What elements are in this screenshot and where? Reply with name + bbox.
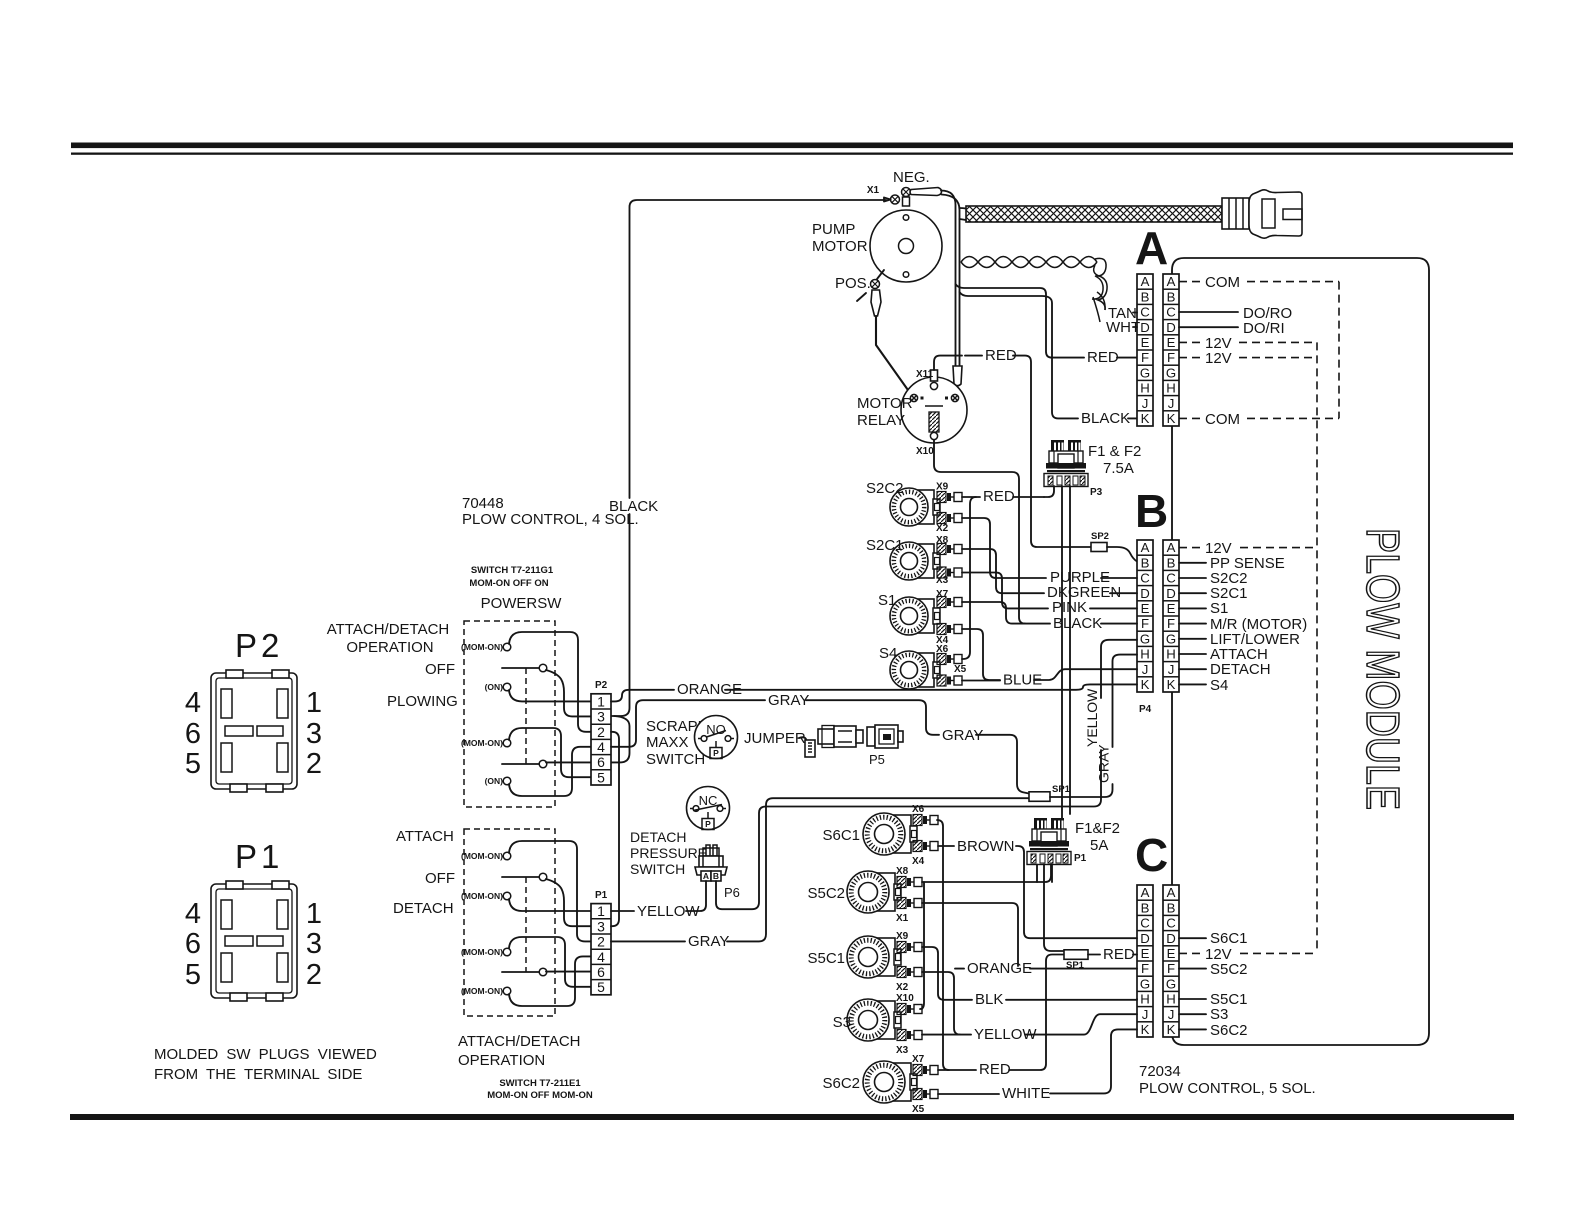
wire 12V dashed at B pin A	[1179, 547, 1201, 549]
svg-text:MOM-ON OFF ON: MOM-ON OFF ON	[469, 578, 548, 589]
svg-text:B: B	[1141, 289, 1150, 304]
terminal POS	[871, 280, 880, 289]
svg-text:K: K	[1141, 1022, 1150, 1037]
wire MOM-ON1 to P2 pin 2	[509, 632, 591, 732]
svg-text:BROWN: BROWN	[957, 838, 1015, 855]
svg-text:H: H	[1166, 992, 1176, 1007]
svg-text:FROM THE TERMINAL SIDE: FROM THE TERMINAL SIDE	[154, 1066, 362, 1083]
svg-text:P1: P1	[1074, 853, 1087, 864]
wire S6C1 at C pin D	[1179, 937, 1206, 939]
svg-text:BLACK: BLACK	[1081, 410, 1130, 427]
svg-text:SP1: SP1	[1066, 960, 1085, 971]
svg-text:B: B	[1167, 900, 1176, 915]
svg-text:D: D	[1140, 931, 1150, 946]
svg-text:5: 5	[185, 748, 201, 780]
svg-text:COM: COM	[1205, 274, 1240, 291]
svg-text:P5: P5	[869, 752, 885, 767]
svg-text:PINK: PINK	[1052, 599, 1087, 616]
pressure switch NO	[695, 716, 738, 759]
svg-text:DETACH: DETACH	[393, 900, 454, 917]
wire DO/RO at pin C	[1179, 311, 1238, 313]
spade X3	[937, 567, 962, 578]
svg-text:3: 3	[306, 928, 322, 960]
solenoid S2C1	[890, 542, 940, 580]
svg-text:RED: RED	[1103, 946, 1135, 963]
wire MOM-ONb to P1 pin 1	[509, 899, 591, 911]
wire common2 to P2 pin 6	[546, 761, 591, 763]
svg-text:ATTACH/DETACH: ATTACH/DETACH	[327, 621, 450, 638]
pump motor	[870, 197, 942, 282]
svg-text:X10: X10	[916, 446, 934, 457]
wire COM dashed at A pin A	[1179, 281, 1200, 283]
svg-text:F: F	[1141, 961, 1149, 976]
svg-text:X3: X3	[896, 1045, 909, 1056]
fuse holder P3	[1044, 440, 1088, 487]
svg-text:1: 1	[597, 693, 605, 709]
wire 12V dashed at pin E	[1179, 341, 1201, 343]
mechanical link dashed lower	[525, 877, 527, 972]
svg-text:E: E	[1167, 601, 1176, 616]
svg-text:OFF: OFF	[425, 870, 455, 887]
svg-text:F1&F2: F1&F2	[1075, 820, 1120, 837]
svg-text:(ON): (ON)	[485, 776, 504, 786]
wire GRAY P2 pin4 to P5	[611, 700, 765, 747]
svg-text:B: B	[713, 871, 719, 881]
svg-text:BLACK: BLACK	[1053, 615, 1102, 632]
wire X2 (S5C1) down to YELLOW	[922, 972, 960, 1035]
svg-text:PLOW MODULE: PLOW MODULE	[1357, 528, 1409, 810]
svg-text:S4: S4	[879, 645, 897, 662]
svg-text:RED: RED	[985, 347, 1017, 364]
spade X8	[937, 544, 962, 555]
svg-text:G: G	[1140, 365, 1150, 380]
svg-text:JUMPER: JUMPER	[744, 730, 806, 747]
plow module enclosure box	[1172, 258, 1429, 1045]
svg-text:F: F	[1167, 350, 1175, 365]
svg-text:S1: S1	[878, 592, 896, 609]
terminal NEG	[902, 188, 911, 197]
border rule top thick	[71, 143, 1513, 149]
wire S5C1 at C pin H	[1179, 998, 1206, 1000]
svg-text:7.5A: 7.5A	[1103, 460, 1134, 477]
spade X3 (S3)	[897, 1030, 922, 1041]
svg-text:X3: X3	[936, 575, 949, 586]
wire MOM-ON2 to P2 pin 5	[509, 728, 591, 777]
border rule top thin	[71, 153, 1513, 155]
svg-text:P4: P4	[1139, 704, 1152, 715]
fuse P1 pigtails	[1036, 865, 1038, 883]
svg-text:J: J	[1142, 662, 1149, 677]
solenoid S3	[847, 999, 901, 1041]
svg-text:DO/RI: DO/RI	[1243, 320, 1285, 337]
svg-text:3: 3	[306, 718, 322, 750]
spade X6	[937, 654, 962, 665]
jumper P2 pin3 to pin6	[611, 716, 630, 762]
svg-text:PLOW CONTROL, 5 SOL.: PLOW CONTROL, 5 SOL.	[1139, 1080, 1316, 1097]
spade X5	[937, 675, 962, 686]
svg-text:A: A	[1141, 885, 1150, 900]
svg-text:ORANGE: ORANGE	[967, 960, 1032, 977]
braided cable	[966, 206, 1222, 222]
wire NEG pair down to motor relay	[941, 191, 956, 369]
svg-text:S2C1: S2C1	[866, 537, 904, 554]
wire PP SENSE at B pin B	[1179, 562, 1206, 564]
svg-text:K: K	[1167, 677, 1176, 692]
terminal X1	[884, 195, 900, 204]
svg-text:OPERATION: OPERATION	[458, 1052, 545, 1069]
svg-text:RELAY: RELAY	[857, 412, 905, 429]
svg-text:X9: X9	[896, 931, 909, 942]
svg-text:K: K	[1141, 411, 1150, 426]
svg-text:70448: 70448	[462, 495, 504, 512]
wire S2C2 at B pin C	[1179, 577, 1206, 579]
wire common-a to P1 pin 3	[546, 879, 591, 926]
svg-text:X6: X6	[936, 644, 949, 655]
motor relay	[901, 370, 967, 443]
wire P2 pin2 to P1 pin3	[611, 732, 619, 926]
connector block C right column	[1163, 885, 1179, 1037]
wire relay X11 to RED	[934, 356, 962, 370]
svg-text:2: 2	[306, 959, 322, 991]
svg-text:OPERATION: OPERATION	[346, 639, 433, 656]
switch contact MOM-ON c	[503, 948, 511, 956]
connector block B left column	[1137, 540, 1153, 692]
wire S3 at C pin J	[1179, 1013, 1206, 1015]
svg-text:X5: X5	[912, 1104, 925, 1115]
wire MOM-ONa to P1 pin 2	[509, 841, 591, 941]
svg-text:X8: X8	[936, 535, 949, 546]
switch contact MOM-ON a	[503, 852, 511, 860]
wire X4 to BLUE	[962, 629, 1000, 680]
spade X7 (S6C2)	[913, 1065, 938, 1076]
svg-text:PLOWING: PLOWING	[387, 693, 458, 710]
wire DETACH at B pin J	[1179, 668, 1206, 670]
wire BROWN S6C1 X4 to C pin D	[938, 845, 954, 847]
svg-text:A: A	[1141, 540, 1150, 555]
svg-text:X9: X9	[936, 482, 949, 493]
fuse holder P1	[1027, 818, 1071, 865]
svg-text:MOTOR: MOTOR	[812, 238, 868, 255]
svg-text:X11: X11	[916, 369, 934, 380]
svg-text:B: B	[1167, 555, 1176, 570]
wire POS stub to motor	[877, 270, 884, 279]
svg-text:1: 1	[306, 898, 322, 930]
svg-text:3: 3	[597, 709, 605, 725]
svg-text:SWITCH: SWITCH	[646, 751, 705, 768]
wire X8 line down to X10 (S3)	[920, 882, 924, 1009]
svg-text:DETACH: DETACH	[1210, 661, 1271, 678]
svg-text:E: E	[1167, 335, 1176, 350]
svg-text:GRAY: GRAY	[768, 692, 809, 709]
jumper tag	[805, 740, 815, 757]
svg-text:J: J	[1168, 662, 1175, 677]
switch contact MOM-ON b	[503, 892, 511, 900]
svg-text:F: F	[1167, 616, 1175, 631]
wire X7 to BLACK	[962, 602, 1050, 624]
wire TAN to pin C	[1133, 312, 1137, 314]
wire X2 to PURPLE	[962, 518, 1046, 578]
jumper wire hook	[799, 737, 806, 739]
svg-text:C: C	[1166, 571, 1176, 586]
svg-text:D: D	[1140, 320, 1150, 335]
svg-text:5: 5	[597, 979, 605, 995]
svg-text:WHITE: WHITE	[1002, 1085, 1050, 1102]
svg-text:SWITCH: SWITCH	[630, 861, 685, 877]
svg-text:S3: S3	[1210, 1006, 1228, 1023]
svg-text:J: J	[1168, 396, 1175, 411]
switch common b blade	[502, 971, 539, 973]
svg-text:C: C	[1166, 916, 1176, 931]
wire X8 to DKGREEN	[962, 549, 1044, 593]
switch common 1 blade	[502, 667, 539, 669]
svg-text:NEG.: NEG.	[893, 169, 930, 186]
svg-text:P1: P1	[595, 890, 608, 901]
wire COM dashed at A pin K	[1179, 417, 1200, 419]
wire from X1 to P2 pin 3 (BLACK)	[630, 200, 887, 498]
svg-text:SP2: SP2	[1091, 531, 1109, 542]
pressure switch NC	[687, 787, 730, 830]
fuse P3 pigtail vertical feeders	[1061, 486, 1063, 818]
switch contact ON 2	[503, 777, 511, 785]
svg-text:A: A	[1135, 222, 1168, 274]
wire 12V dashed at C pin E	[1179, 952, 1201, 954]
svg-text:(ON): (ON)	[485, 682, 504, 692]
svg-text:K: K	[1141, 677, 1150, 692]
svg-text:P2: P2	[595, 680, 608, 691]
wire 12V dashed at pin F	[1179, 357, 1201, 359]
spade X10 (S3)	[897, 1004, 922, 1015]
svg-text:6: 6	[185, 928, 201, 960]
svg-text:D: D	[1140, 586, 1150, 601]
svg-text:H: H	[1140, 992, 1150, 1007]
wire S6C2 at C pin K	[1179, 1028, 1206, 1030]
wire pair branch to RED / BLACK feed	[956, 284, 1053, 358]
wire YELLOW P1 pin1 to P6 A	[611, 910, 634, 912]
svg-text:E: E	[1141, 946, 1150, 961]
wire X5 BLUE to B pin J	[962, 680, 1000, 682]
svg-text:B: B	[1167, 289, 1176, 304]
svg-text:J: J	[1142, 1007, 1149, 1022]
svg-text:C: C	[1140, 916, 1150, 931]
svg-text:H: H	[1166, 647, 1176, 662]
svg-text:PUMP: PUMP	[812, 221, 855, 238]
wire POS to relay left post	[876, 316, 912, 395]
wire RED to A block pin F	[1052, 357, 1084, 359]
svg-text:4: 4	[185, 687, 201, 719]
svg-text:6: 6	[597, 964, 605, 980]
switch body lower dashed box	[464, 829, 555, 1016]
wire LIFT/LOWER at B pin G	[1179, 638, 1206, 640]
wire common1 to P2 pin 3	[546, 670, 591, 716]
svg-text:S5C2: S5C2	[1210, 961, 1248, 978]
svg-text:RED: RED	[979, 1061, 1011, 1078]
terminal strip P1	[591, 903, 611, 995]
connector P6	[695, 845, 727, 881]
wire X8 (S5C2) to fuse	[922, 865, 1051, 883]
switch body POWERSW dashed box	[464, 621, 555, 807]
wire S1 at B pin E	[1179, 607, 1206, 609]
switch common a blade	[502, 876, 539, 878]
svg-text:K: K	[1167, 411, 1176, 426]
wire stub braid to NEG pair	[960, 207, 967, 210]
wire DO/RI at pin D	[1179, 326, 1238, 328]
svg-text:B: B	[1135, 485, 1168, 537]
svg-text:F: F	[1141, 350, 1149, 365]
svg-text:(MOM-ON): (MOM-ON)	[461, 947, 503, 957]
wire ON1 to P2 pin 1	[509, 690, 591, 701]
svg-text:X2: X2	[896, 982, 909, 993]
svg-text:A: A	[703, 871, 709, 881]
svg-text:X5: X5	[954, 664, 967, 675]
mechanical link dashed	[525, 668, 527, 764]
spade X9 (S5C1)	[897, 942, 922, 953]
lug at relay post X11 right	[953, 366, 962, 386]
svg-text:1: 1	[597, 903, 605, 919]
switch common 2 blade	[502, 763, 539, 765]
svg-text:J: J	[1142, 396, 1149, 411]
svg-text:C: C	[1166, 305, 1176, 320]
wire MOM-ONc to P1 pin 5	[509, 937, 591, 987]
cable connector plug	[1249, 190, 1302, 238]
svg-text:3: 3	[597, 918, 605, 934]
twisted pair wires	[961, 257, 1107, 323]
svg-text:S3: S3	[833, 1014, 851, 1031]
svg-text:G: G	[1140, 976, 1150, 991]
spade X1 (S5C2)	[897, 898, 922, 909]
svg-text:G: G	[1166, 365, 1176, 380]
wire X3 YELLOW to C pin J	[922, 1034, 971, 1036]
svg-text:YELLOW: YELLOW	[1084, 688, 1100, 747]
splice SP2	[1091, 543, 1107, 552]
svg-text:H: H	[1140, 647, 1150, 662]
svg-text:F: F	[1141, 616, 1149, 631]
spade X2 (S5C1)	[897, 967, 922, 978]
solenoid S2C2	[890, 488, 940, 526]
svg-text:S6C2: S6C2	[1210, 1022, 1248, 1039]
svg-text:ATTACH: ATTACH	[396, 828, 454, 845]
solenoid S1	[890, 597, 940, 635]
terminal strip P2	[591, 693, 611, 785]
dashed vertical COM	[1338, 282, 1340, 419]
svg-text:POS.: POS.	[835, 275, 871, 292]
svg-text:X7: X7	[912, 1054, 925, 1065]
svg-text:5: 5	[597, 769, 605, 785]
svg-text:POWERSW: POWERSW	[481, 595, 563, 612]
svg-text:X10: X10	[896, 993, 914, 1004]
wire RED solenoid common	[962, 496, 980, 498]
solenoid S6C1	[863, 813, 917, 855]
svg-text:72034: 72034	[1139, 1063, 1181, 1080]
wire relay X10 to BLACK (M/R)	[934, 440, 1025, 624]
svg-text:X2: X2	[936, 523, 949, 534]
svg-text:D: D	[1166, 320, 1176, 335]
svg-text:S6C1: S6C1	[822, 827, 860, 844]
solenoid S5C2	[847, 871, 901, 913]
svg-text:OFF: OFF	[425, 661, 455, 678]
svg-text:MOM-ON OFF MOM-ON: MOM-ON OFF MOM-ON	[487, 1090, 593, 1101]
spade X2	[937, 513, 962, 524]
connector P5	[867, 725, 903, 748]
svg-text:RED: RED	[983, 488, 1015, 505]
svg-text:SWITCH T7-211E1: SWITCH T7-211E1	[499, 1078, 581, 1089]
splice SP1 (C section)	[1064, 950, 1088, 960]
svg-text:G: G	[1166, 976, 1176, 991]
svg-text:D: D	[1166, 931, 1176, 946]
solenoid S6C2	[863, 1061, 917, 1103]
svg-text:PLOW CONTROL, 4 SOL.: PLOW CONTROL, 4 SOL.	[462, 511, 639, 528]
svg-text:ATTACH/DETACH: ATTACH/DETACH	[458, 1033, 581, 1050]
svg-text:P6: P6	[724, 885, 740, 900]
svg-text:S6C2: S6C2	[822, 1075, 860, 1092]
wire X1 (S5C2) to ORANGE / C pin F	[922, 903, 1018, 966]
wire ON2 to P2 pin 4	[509, 747, 591, 796]
wire SP2 to B block pin B	[1107, 547, 1137, 562]
wire X7 (S6C2) RED to SP1	[938, 1069, 976, 1071]
svg-text:D: D	[1166, 586, 1176, 601]
svg-text:S5C2: S5C2	[807, 885, 845, 902]
cable strain relief	[1222, 198, 1249, 229]
jumper connector halves	[818, 726, 863, 748]
svg-text:(MOM-ON): (MOM-ON)	[461, 986, 503, 996]
svg-text:S5C1: S5C1	[807, 950, 845, 967]
wire X3 to PINK	[962, 573, 1048, 609]
svg-text:X8: X8	[896, 866, 909, 877]
wire SP1 to RED C pin E	[1088, 954, 1100, 956]
connector block B right column	[1163, 540, 1179, 692]
lug NEG	[910, 188, 942, 196]
svg-text:PRESSURE: PRESSURE	[630, 845, 707, 861]
svg-text:C: C	[1140, 571, 1150, 586]
wire ORANGE P2 pin1 to B pin K	[611, 690, 674, 702]
wire RED down to SP2	[1013, 356, 1091, 547]
wire X9 (S5C1) to BLK / C pin H	[922, 947, 972, 1000]
wire S2C1 at B pin D	[1179, 592, 1206, 594]
svg-text:2: 2	[597, 934, 605, 950]
svg-text:S1: S1	[1210, 600, 1228, 617]
svg-text:2: 2	[306, 748, 322, 780]
spade X7	[937, 597, 962, 608]
svg-text:GRAY: GRAY	[1096, 744, 1112, 783]
svg-text:MOTOR: MOTOR	[857, 395, 913, 412]
connector block A left column	[1137, 274, 1153, 426]
wire X6 (S6C1) down to RED	[937, 820, 949, 1070]
svg-text:H: H	[1140, 381, 1150, 396]
svg-text:A: A	[1167, 274, 1176, 289]
svg-text:P3: P3	[1090, 487, 1103, 498]
wire WHT to pin D	[1133, 326, 1137, 328]
svg-text:P: P	[705, 819, 711, 829]
wire M/R (MOTOR) at B pin F	[1179, 623, 1206, 625]
svg-text:E: E	[1141, 601, 1150, 616]
svg-text:6: 6	[185, 718, 201, 750]
wire MOM-ONd to P1 pin 4	[509, 956, 591, 1006]
spade X8 (S5C2)	[897, 877, 922, 888]
wire S4 at B pin K	[1179, 683, 1206, 685]
svg-text:A: A	[1167, 540, 1176, 555]
svg-text:S2C2: S2C2	[866, 480, 904, 497]
svg-text:E: E	[1141, 335, 1150, 350]
svg-text:NO: NO	[706, 722, 726, 737]
switch contact MOM-ON 1	[503, 643, 511, 651]
dashed vertical 12V feed	[1316, 342, 1318, 953]
svg-text:P1: P1	[235, 838, 283, 875]
connector block C left column	[1137, 885, 1153, 1037]
switch contact MOM-ON 2	[503, 739, 511, 747]
svg-text:A: A	[1167, 885, 1176, 900]
svg-text:C: C	[1140, 305, 1150, 320]
svg-text:4: 4	[185, 898, 201, 930]
svg-text:E: E	[1167, 946, 1176, 961]
